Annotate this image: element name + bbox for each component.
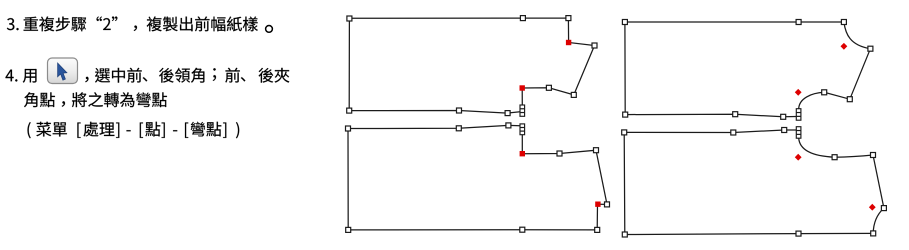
- piece2 wire neck segs: [522, 135, 607, 205]
- text line4 '菜單': [36, 122, 67, 137]
- piece2 node bottom-mid: [520, 227, 525, 232]
- piece4 node top-mid: [731, 130, 736, 135]
- piece4 node bottom-mid: [796, 231, 801, 236]
- text line2 '用': [23, 69, 37, 83]
- piece3 node BL: [623, 112, 628, 117]
- text line4 bracket: [116, 123, 119, 138]
- piece3 node neck-right: [868, 46, 873, 51]
- piece4 node neck-left: [871, 153, 876, 158]
- text line4 bracket: [140, 123, 143, 138]
- text line1 '重複步驟': [24, 17, 87, 32]
- cursor arrow icon: [58, 63, 67, 80]
- piece3 node top-mid: [796, 20, 801, 25]
- piece3 node hem-notch: [781, 114, 786, 119]
- text line1 comma: [134, 26, 137, 32]
- piece3 curve point diamond (armhole): [795, 89, 802, 96]
- text line4 bracket: [77, 123, 80, 138]
- piece3 node hem-mid: [733, 112, 738, 117]
- piece2 selected red corner (neck): [595, 202, 600, 207]
- piece4 node BR: [871, 231, 876, 236]
- text line4 bracket: [223, 123, 226, 138]
- piece2 point stack: [520, 124, 525, 135]
- text line4 bracket: [185, 123, 188, 138]
- text line4 close paren: [236, 122, 239, 138]
- piece4 point stack: [796, 127, 801, 139]
- piece4 armhole curve: [799, 138, 873, 157]
- piece1 node hem-notch: [505, 111, 510, 116]
- piece4 curve point diamond (armhole): [795, 154, 802, 161]
- text line2 '前、': [225, 68, 245, 83]
- piece3 neck curve: [844, 22, 871, 49]
- piece1 node BL: [347, 108, 352, 113]
- piece3 outline top+left+bottom wires: [625, 22, 844, 117]
- piece1 node top-mid: [520, 16, 525, 21]
- piece2 node side-top: [605, 202, 610, 207]
- piece1 selected red corner (armpit): [520, 85, 525, 90]
- piece1 outline wires (top/right/notch): [349, 18, 594, 105]
- piece1 node hem-mid: [457, 108, 462, 113]
- piece2 node neck-right: [594, 148, 599, 153]
- piece3 node shoulder: [822, 90, 827, 95]
- piece1 selected red corner (neck): [566, 40, 571, 45]
- text line4 bracket: [162, 123, 165, 138]
- piece2 outline wires: [348, 125, 598, 229]
- piece4 node TL: [622, 130, 627, 135]
- text line2 '後夾': [259, 68, 290, 83]
- piece3 armhole curve: [799, 92, 850, 108]
- piece1 wire bottom-notch to hem: [349, 18, 520, 113]
- piece4 node top-notch: [782, 128, 787, 133]
- piece3 node TR: [841, 20, 846, 25]
- text line4 hyphen: [127, 130, 131, 131]
- text line2 '4.': [6, 70, 18, 82]
- piece4 curve point diamond (neck): [869, 204, 876, 211]
- piece3 side seam wire: [850, 49, 871, 99]
- text line4 '處理': [84, 122, 115, 137]
- piece2 selected red corner (armpit): [520, 151, 525, 156]
- text line4 hyphen: [173, 130, 177, 131]
- piece2 node top-mid: [456, 126, 461, 131]
- piece3 node armpit: [847, 97, 852, 102]
- text line4 '彎點': [191, 122, 222, 137]
- piece4 node BL: [622, 232, 627, 237]
- text line4 open paren: [28, 122, 31, 138]
- text line1 '複製出前幅紙樣': [147, 17, 258, 32]
- piece1 node armpit: [571, 92, 576, 97]
- piece2 node shoulder: [557, 151, 562, 156]
- piece4 node shoulder: [832, 155, 837, 160]
- text line3 '角點，將之轉為彎點': [24, 92, 167, 107]
- piece4 outline wires: [624, 130, 873, 235]
- text line1 '3.': [7, 18, 19, 30]
- piece4 node side-top: [881, 206, 886, 211]
- piece1 node neck-right: [592, 43, 597, 48]
- text line1 quoted 2: [97, 17, 118, 31]
- text line1 full stop ring: [266, 26, 273, 33]
- piece1 node TL: [347, 16, 352, 21]
- piece3 curve point diamond (neck): [841, 43, 848, 50]
- text line2 '選中前、後領角；': [95, 68, 216, 83]
- piece1 point stack: [520, 105, 525, 116]
- piece2 node TL: [346, 126, 351, 131]
- piece2 node BL: [346, 227, 351, 232]
- piece3 node TL: [622, 20, 627, 25]
- piece2 node top-notch: [506, 123, 511, 128]
- text line4 '點': [145, 122, 160, 137]
- piece1 node shoulder: [546, 85, 551, 90]
- piece4 neck curve: [873, 208, 884, 233]
- piece4 side seam wire: [873, 155, 884, 208]
- piece2 node BR: [595, 227, 600, 232]
- piece3 point stack: [796, 109, 801, 121]
- piece1 node TR: [566, 16, 571, 21]
- text line2 comma: [85, 77, 88, 83]
